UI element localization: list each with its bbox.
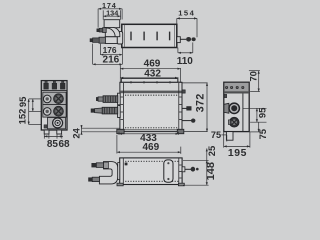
top view gland 2 lower (99, 37, 105, 43)
front view top strip (121, 79, 177, 83)
front view lid band (120, 91, 181, 94)
left view connector row 1 (43, 92, 66, 104)
svg-text:24: 24 (71, 127, 82, 138)
front view connector 2 flange (118, 106, 121, 118)
bottom view right cap line (178, 158, 180, 184)
front view left cap dashes (121, 96, 124, 98)
svg-text:216: 216 (103, 55, 120, 66)
bottom view body (120, 158, 182, 185)
front view bottom edge (120, 129, 182, 131)
bottom view right pin (185, 168, 191, 170)
top view left flange (117, 32, 123, 44)
svg-text:95: 95 (17, 97, 28, 107)
bottom view right cap dashes (179, 164, 182, 166)
bottom view rivet rows (125, 161, 126, 162)
svg-text:195: 195 (228, 148, 247, 159)
top view right pin (180, 38, 186, 40)
left view feet (44, 130, 49, 134)
bottom view elbow (99, 162, 117, 184)
bottom view left cap line (122, 158, 124, 184)
svg-text:152: 152 (16, 109, 27, 125)
top view elbow riser (104, 20, 120, 28)
svg-text:95: 95 (256, 108, 267, 118)
right view terminals (225, 86, 228, 89)
bottom view feet (117, 183, 123, 186)
front view connector 2 plug (102, 107, 118, 114)
svg-text:85: 85 (47, 139, 59, 150)
front view outer box (120, 82, 182, 131)
svg-text:70: 70 (247, 71, 258, 81)
top view elbow lower outlet block (105, 37, 117, 44)
front view left foot (117, 129, 124, 133)
svg-text:469: 469 (142, 142, 159, 153)
front view connector 1 boot (98, 97, 103, 101)
front view connector 2 boot (95, 108, 103, 113)
front view right pin B (182, 120, 192, 122)
left view screw bottom left (44, 125, 47, 128)
svg-text:68: 68 (58, 139, 70, 150)
bottom view gland lower (92, 177, 99, 181)
front view rivet row bottom (125, 127, 126, 128)
right view screw top left (224, 94, 226, 97)
front view right stub (182, 90, 185, 93)
front view rivet row top (125, 95, 126, 96)
top view right flange (177, 37, 181, 43)
right view divider (242, 94, 244, 132)
front view right cap dashes (179, 96, 182, 98)
top view gland 1 upper (103, 28, 107, 33)
bottom view slot (164, 160, 173, 182)
top view body (122, 24, 177, 47)
front view right pin A (182, 107, 187, 109)
front view right foot (177, 129, 184, 133)
svg-text:110: 110 (177, 56, 194, 67)
svg-text:372: 372 (194, 93, 206, 112)
right view foot (226, 132, 233, 141)
left view terminal band (42, 81, 66, 90)
right view box (224, 82, 249, 131)
front view lid ticks (130, 81, 132, 83)
svg-text:75: 75 (211, 130, 221, 140)
bottom view elbow flange (118, 163, 120, 180)
front view connector 1 flange (118, 93, 121, 105)
left view box (41, 81, 67, 130)
svg-text:154: 154 (178, 8, 195, 17)
dimension 85 68 (43, 134, 45, 138)
bottom view elbow nut (104, 162, 109, 168)
top view vent ticks (130, 32, 132, 41)
top view elbow bend (105, 27, 120, 36)
right view connector B (229, 117, 239, 127)
left view terminals (44, 83, 49, 89)
left view connector row 3 (48, 118, 66, 129)
bottom view screw dot (125, 163, 127, 165)
bottom view right pin flange (182, 167, 185, 172)
front view connector 1 plug (103, 96, 118, 103)
right view terminal band (225, 83, 249, 91)
front view right cap lines (178, 83, 180, 131)
front view left cap lines (122, 83, 124, 131)
front view lid plate (121, 83, 182, 91)
bottom view gland upper (96, 163, 103, 168)
left view connector row 2 (43, 105, 66, 118)
right view connector A (224, 103, 229, 113)
